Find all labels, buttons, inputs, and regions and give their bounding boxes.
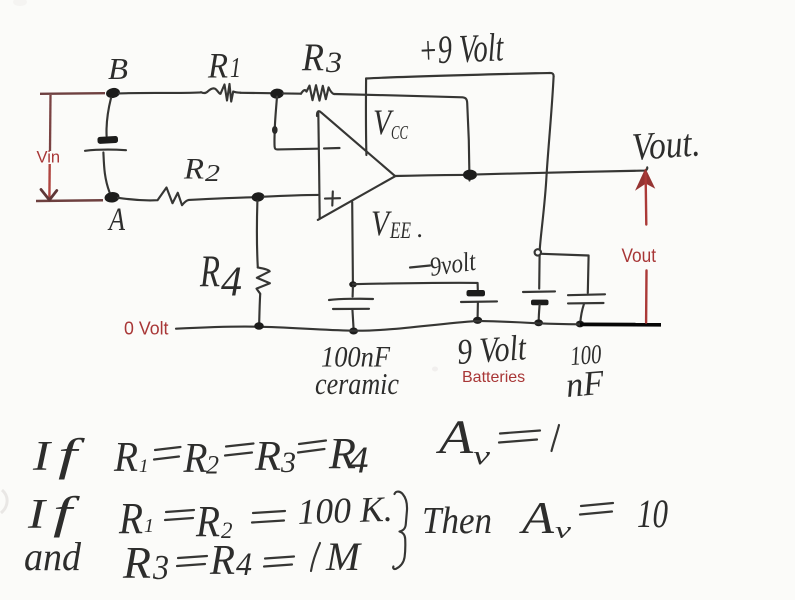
svg-text:1: 1 — [230, 53, 241, 84]
svg-text:R: R — [199, 247, 220, 297]
wire output to Vout — [477, 167, 647, 174]
svg-text:9 Volt: 9 Volt — [456, 327, 528, 372]
op-amp non-inverting input marker — [325, 192, 340, 206]
svg-text:10: 10 — [637, 491, 668, 536]
svg-text:R: R — [207, 46, 228, 86]
wire junction to non-inverting input — [264, 195, 318, 197]
svg-text:100 K.: 100 K. — [297, 489, 393, 532]
wire VEE pin down — [351, 202, 354, 282]
svg-text:v: v — [473, 441, 491, 470]
svg-text:and: and — [24, 534, 82, 579]
svg-text:Batteries: Batteries — [462, 369, 525, 386]
wire VEE node to battery BT2 — [353, 283, 478, 290]
svg-text:R: R — [183, 436, 208, 482]
wire junction to R3 — [283, 92, 301, 94]
junction loop +9V branch — [535, 249, 541, 255]
resistor R2 — [150, 188, 189, 206]
svg-text:I: I — [32, 434, 53, 480]
svg-text:A: A — [107, 202, 125, 238]
wire op-amp output — [395, 175, 463, 176]
resistor R1 — [201, 84, 241, 102]
annotation Vout arrow (red) — [635, 168, 655, 322]
wire 0V rail thick black segment — [580, 322, 661, 326]
wire R4 to 0V rail — [259, 294, 260, 323]
svg-text:3: 3 — [325, 46, 342, 79]
svg-text:R: R — [301, 36, 324, 79]
wire junction to inverting input — [274, 97, 318, 150]
svg-text:3: 3 — [280, 446, 296, 479]
svg-text:1: 1 — [144, 515, 154, 537]
svg-text:3: 3 — [152, 548, 169, 587]
svg-text:f: f — [53, 487, 81, 538]
svg-text:4: 4 — [236, 547, 252, 583]
svg-text:+9 Volt: +9 Volt — [417, 24, 505, 73]
junction dot C1 on 0V rail — [349, 328, 358, 335]
battery BT1 +9V — [523, 291, 555, 321]
equation line 1: If R1 = R2 = R3 = R4 , Av = 1 — [32, 411, 559, 482]
svg-text:R: R — [122, 537, 151, 588]
equation line 2: If R1 = R2 = 100 K. Then Av = 10 — [27, 487, 668, 546]
wire Vcc pin to +9V rail — [365, 79, 368, 156]
svg-text:4: 4 — [349, 440, 369, 482]
svg-text:EE: EE — [389, 218, 411, 243]
wire +9V rail (top) — [366, 73, 554, 79]
wire R2 to junction node — [189, 197, 252, 200]
svg-text:nF: nF — [564, 363, 606, 405]
wire branch to capacitor C2 — [542, 254, 589, 293]
junction dot VEE node — [349, 281, 357, 287]
svg-text:Vout: Vout — [622, 246, 657, 267]
capacitor C1 100nF ceramic — [329, 287, 373, 329]
junction node R2/R4 (non-inverting net) — [251, 191, 265, 202]
wire node B to R1 — [119, 92, 201, 93]
svg-text:.: . — [417, 214, 424, 243]
svg-text:A: A — [436, 411, 474, 464]
svg-text:4: 4 — [221, 260, 242, 306]
svg-text:I: I — [27, 492, 48, 538]
capacitor C2 100nF — [568, 294, 605, 322]
svg-text:R: R — [254, 434, 281, 480]
junction dot C2 on 0V rail — [576, 321, 584, 328]
junction dot BT1 on 0V rail — [534, 319, 543, 326]
resistor R3 — [301, 85, 334, 100]
equation line 3: and R3 = R4 = 1M — [24, 534, 363, 588]
wire 0V rail — [176, 321, 580, 331]
svg-text:1: 1 — [139, 456, 149, 477]
junction dot R4 on 0V rail — [254, 322, 264, 329]
wire loop to battery BT1 — [538, 256, 541, 289]
op-amp inverting input marker — [324, 147, 340, 150]
resistor R4 — [257, 268, 270, 294]
svg-text:R: R — [118, 494, 143, 543]
wire node A to R2 — [118, 198, 150, 201]
svg-text:A: A — [519, 492, 555, 543]
svg-text:M: M — [325, 534, 363, 579]
battery V1 input source (between B and A) — [85, 98, 126, 193]
svg-text:2: 2 — [205, 161, 220, 187]
op-amp U1 — [317, 111, 395, 220]
svg-text:CC: CC — [391, 122, 408, 144]
svg-text:2: 2 — [206, 451, 219, 480]
faint scan curl left edge — [1, 490, 7, 513]
battery BT2 -9V — [461, 290, 497, 318]
wire R1 to junction — [241, 92, 271, 95]
wire junction down to R4 — [256, 201, 259, 268]
curly brace — [393, 492, 407, 569]
svg-text:f: f — [58, 429, 86, 480]
label -9volt — [410, 246, 479, 282]
wire +9V rail right side down — [540, 77, 554, 250]
svg-text:Then: Then — [422, 500, 492, 542]
svg-text:R: R — [113, 435, 138, 481]
svg-text:R: R — [209, 538, 235, 584]
svg-text:ceramic: ceramic — [315, 366, 399, 401]
svg-text:Vout.: Vout. — [631, 121, 702, 169]
svg-text:Vin: Vin — [37, 149, 61, 167]
wire R3 feedback down to output node — [334, 94, 470, 181]
svg-text:v: v — [555, 518, 572, 544]
svg-text:9volt: 9volt — [428, 246, 479, 282]
svg-text:B: B — [108, 51, 128, 86]
svg-text:0 Volt: 0 Volt — [124, 319, 169, 339]
node B — [105, 87, 121, 99]
junction dot BT2 on 0V rail — [473, 317, 482, 324]
node A — [104, 191, 120, 203]
svg-text:R: R — [183, 153, 204, 186]
faint scan smudge top-left — [13, 0, 27, 6]
junction node R1/R3 (inverting net) — [270, 88, 285, 99]
junction node output — [463, 170, 477, 180]
annotation Vin dimension arrows (red) — [36, 93, 105, 201]
